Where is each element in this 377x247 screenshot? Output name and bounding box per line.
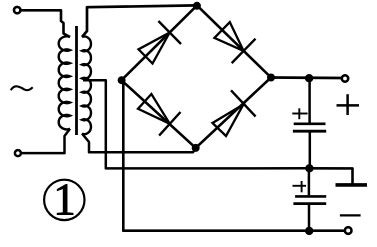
terminal T1 (AC input, top-left) xyxy=(14,7,20,13)
node bridge bottom vertex xyxy=(192,144,200,152)
node bridge left vertex xyxy=(118,76,126,84)
diode D2 (top vertex to right vertex) xyxy=(197,5,271,77)
wire primary bottom to T2 xyxy=(22,129,70,153)
label minus xyxy=(340,214,361,216)
terminal - output xyxy=(345,227,352,234)
wire bridge right vertex to + output terminal xyxy=(271,76,342,79)
transformer primary winding xyxy=(59,36,70,129)
node junction center rail / between capacitors xyxy=(305,164,313,172)
svg-text:1: 1 xyxy=(53,175,76,225)
diode D1 (left vertex to top vertex) xyxy=(121,5,197,80)
wire secondary center tap down to center rail xyxy=(83,80,309,168)
polarity plus of C1 xyxy=(292,108,307,119)
capacitor C2 (positive lead up) xyxy=(293,168,326,230)
transformer secondary winding xyxy=(82,36,91,134)
wire secondary bottom to bridge bottom vertex xyxy=(82,134,196,153)
polarity plus of C2 xyxy=(293,181,307,192)
wire bridge left vertex down to negative bottom rail xyxy=(123,80,344,231)
node junction at C1 top xyxy=(305,74,313,82)
node bridge right vertex xyxy=(267,74,275,82)
terminal T2 (AC input, bottom-left) xyxy=(15,150,21,156)
ground symbol xyxy=(336,183,368,187)
transformer core xyxy=(75,26,78,135)
diode D3 (left vertex to bottom vertex) xyxy=(121,80,195,148)
label AC tilde xyxy=(11,86,33,90)
node bridge top vertex xyxy=(193,2,201,10)
node junction bottom rail at C2 xyxy=(305,227,313,235)
wire center rail to ground xyxy=(309,168,352,183)
wire secondary top to bridge top vertex xyxy=(82,5,197,37)
label circled 1 xyxy=(44,180,84,220)
label plus xyxy=(337,94,360,115)
wire T1 to transformer primary top xyxy=(21,10,70,37)
capacitor C1 (positive lead up) xyxy=(293,78,326,167)
terminal + output xyxy=(342,75,348,81)
diode D4 (bottom vertex to right vertex) xyxy=(196,78,271,148)
